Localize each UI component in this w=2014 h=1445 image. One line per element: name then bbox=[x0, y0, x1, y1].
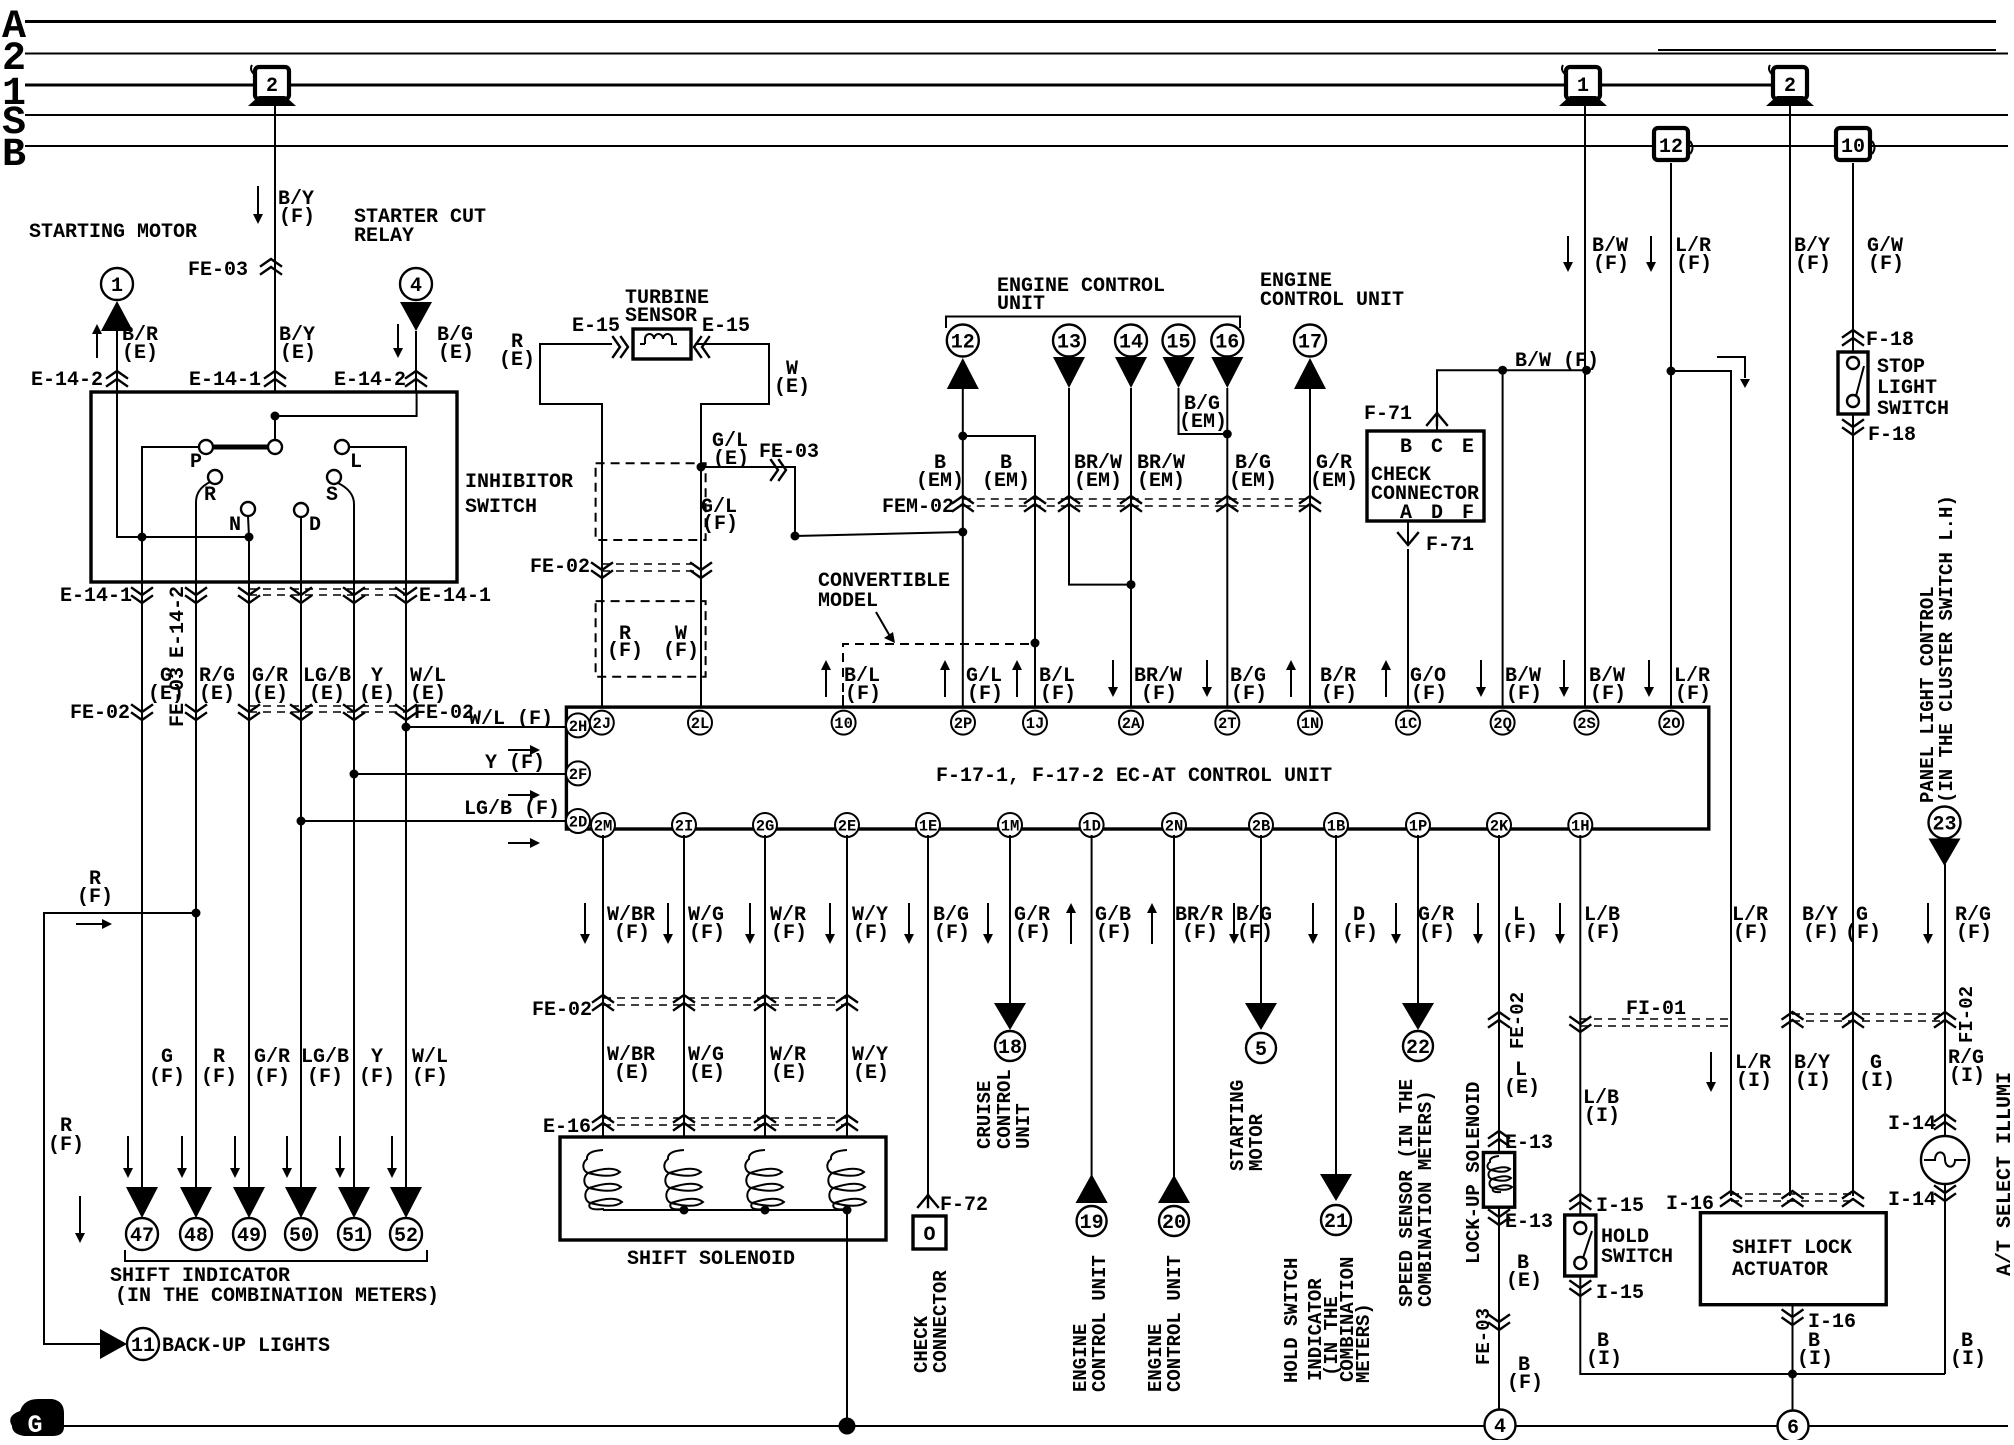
svg-text:2: 2 bbox=[1784, 75, 1796, 98]
pin 2P bbox=[951, 711, 975, 735]
wire shift indicator x=249 bbox=[248, 582, 250, 1187]
pin 2T bbox=[1215, 711, 1239, 735]
arrow to convertible box bbox=[876, 612, 891, 638]
terminal R bbox=[208, 470, 222, 484]
svg-text:(F): (F) bbox=[201, 1066, 237, 1089]
svg-text:22: 22 bbox=[1406, 1037, 1430, 1060]
junction dot B(EM) split bbox=[958, 432, 967, 441]
svg-text:(F): (F) bbox=[1411, 683, 1447, 706]
dashed box R/W upper bbox=[596, 463, 706, 540]
wire shift indicator x=406 bbox=[405, 582, 407, 1187]
flow arrow down into shift indicator x=249 bbox=[234, 1136, 236, 1169]
pin 10 bbox=[832, 711, 856, 735]
svg-text:2L: 2L bbox=[691, 715, 710, 733]
chevron FE-03 bbox=[1489, 1315, 1509, 1330]
inhibitor switch box bbox=[91, 392, 457, 582]
dashed link E-16 row bbox=[603, 1117, 847, 1119]
svg-text:(F): (F) bbox=[702, 513, 738, 536]
terminal D bbox=[294, 503, 308, 517]
wire hold switch to ground junction bbox=[1580, 1276, 1945, 1374]
svg-text:(E): (E) bbox=[1506, 1270, 1542, 1293]
junction dot on B(EM) wire bbox=[958, 528, 967, 537]
triangle at circle 12 bbox=[947, 358, 979, 389]
svg-text:I-16: I-16 bbox=[1808, 1311, 1856, 1334]
svg-text:F-71: F-71 bbox=[1426, 534, 1474, 557]
svg-text:(I): (I) bbox=[1797, 1348, 1833, 1371]
triangle down from circle 4 bbox=[400, 302, 432, 331]
svg-text:F: F bbox=[1462, 502, 1474, 525]
chevron E-15 right bbox=[694, 337, 709, 357]
svg-text:2K: 2K bbox=[1490, 818, 1509, 836]
dashed link FEM-02 row bbox=[963, 498, 1310, 500]
svg-text:2I: 2I bbox=[675, 818, 694, 836]
svg-text:(F): (F) bbox=[1795, 253, 1831, 276]
chevron E-15 left bbox=[613, 337, 628, 357]
svg-text:(I): (I) bbox=[1795, 1070, 1831, 1093]
triangle down into circle 21 bbox=[1320, 1174, 1352, 1201]
stop light switch box bbox=[1838, 352, 1868, 414]
chevron E-16 wire x=684 bbox=[674, 1115, 694, 1130]
circle 48 shift indicator bbox=[180, 1218, 212, 1250]
svg-text:LG/B (F): LG/B (F) bbox=[464, 798, 560, 821]
svg-text:(F): (F) bbox=[1956, 922, 1992, 945]
chevron FEM-02 wire x=962.8 bbox=[953, 496, 973, 511]
wire R (F) horizontal bbox=[44, 913, 196, 1344]
flow arrow right 2 bbox=[508, 794, 531, 796]
svg-text:(I): (I) bbox=[1586, 1348, 1622, 1371]
connector marker E-14-2 chevron on starting motor wire bbox=[107, 371, 127, 386]
svg-text:18: 18 bbox=[998, 1037, 1022, 1060]
flow arrow down R/G bbox=[1927, 903, 1929, 935]
wire from pin 2M to shift solenoid bbox=[602, 835, 604, 1152]
svg-text:(F): (F) bbox=[689, 922, 725, 945]
svg-text:(E): (E) bbox=[853, 1062, 889, 1085]
flow arrow right 3 bbox=[508, 842, 531, 844]
pin 2N bbox=[1162, 813, 1186, 837]
chevron E-16 wire x=603 bbox=[593, 1115, 613, 1130]
svg-text:(F): (F) bbox=[607, 640, 643, 663]
svg-text:SWITCH: SWITCH bbox=[1601, 1246, 1673, 1269]
svg-text:(I): (I) bbox=[1949, 1065, 1985, 1088]
svg-text:19: 19 bbox=[1080, 1212, 1104, 1235]
svg-text:HOLD SWITCH: HOLD SWITCH bbox=[1281, 1258, 1303, 1383]
flow arrow down at x=1396 bbox=[1395, 903, 1397, 935]
svg-text:1N: 1N bbox=[1301, 715, 1320, 733]
junction dot solenoid bus x=765 bbox=[761, 1206, 770, 1215]
svg-text:B: B bbox=[2, 133, 26, 178]
junction dot G/L(E) bbox=[697, 463, 706, 472]
wire B/G(E) from relay to inhibitor bbox=[415, 331, 417, 416]
flow arrow down at x=668 bbox=[667, 903, 669, 935]
circle 47 shift indicator bbox=[126, 1218, 158, 1250]
pin 2O bbox=[1659, 711, 1683, 735]
chevron I-14 upper bbox=[1935, 1114, 1955, 1129]
dashed link FI-01 bbox=[1580, 1018, 1731, 1020]
svg-text:2F: 2F bbox=[569, 766, 588, 784]
svg-text:FE-02: FE-02 bbox=[532, 999, 592, 1022]
svg-text:(E): (E) bbox=[280, 342, 316, 365]
svg-text:LIGHT: LIGHT bbox=[1877, 377, 1937, 400]
svg-text:(F): (F) bbox=[1733, 922, 1769, 945]
triangle down into circle 18 bbox=[994, 1003, 1026, 1030]
wire N terminal to junction bbox=[248, 516, 249, 537]
svg-text:(F): (F) bbox=[1868, 253, 1904, 276]
svg-text:SHIFT SOLENOID: SHIFT SOLENOID bbox=[627, 1248, 795, 1271]
circle 51 shift indicator bbox=[338, 1218, 370, 1250]
wire B/W horizontal bbox=[1437, 370, 1587, 431]
wire W/L (F) to pin 2H bbox=[406, 726, 568, 728]
wire node to common terminal bbox=[274, 416, 276, 440]
svg-text:(I): (I) bbox=[1584, 1105, 1620, 1128]
circle 15 engine control unit bbox=[1163, 325, 1195, 357]
svg-text:(E): (E) bbox=[689, 1062, 725, 1085]
chevron I-14 lower bbox=[1935, 1186, 1955, 1201]
wire F-71 to pin 1C bbox=[1407, 549, 1409, 711]
pin 2G bbox=[753, 813, 777, 837]
svg-text:F-18: F-18 bbox=[1868, 424, 1916, 447]
connector marker E-14-2 chevron on relay wire bbox=[406, 371, 426, 386]
chevron FI-01 on 1H wire bbox=[1570, 1017, 1590, 1032]
svg-text:(EM): (EM) bbox=[982, 470, 1030, 493]
svg-text:FE-03: FE-03 bbox=[1473, 1308, 1495, 1365]
chevron FE-02 on 2K wire bbox=[1489, 1012, 1509, 1027]
svg-text:2D: 2D bbox=[569, 814, 588, 832]
svg-text:SWITCH: SWITCH bbox=[1877, 398, 1949, 421]
junction dot B/W to 2S bbox=[1582, 366, 1591, 375]
svg-text:2N: 2N bbox=[1165, 818, 1184, 836]
flow arrow up at x=1071 bbox=[1070, 912, 1072, 944]
solenoid coil 2 bbox=[664, 1150, 703, 1209]
chevron E-14 row wire x=301 bbox=[291, 588, 311, 603]
chevron E-14 row wire x=196 bbox=[186, 588, 206, 603]
pin 1H bbox=[1568, 813, 1592, 837]
svg-text:A/T SELECT ILLUMI: A/T SELECT ILLUMI bbox=[1994, 1072, 2014, 1276]
svg-text:(IN THE CLUSTER SWITCH L.H): (IN THE CLUSTER SWITCH L.H) bbox=[1936, 495, 1958, 803]
svg-text:(F): (F) bbox=[48, 1134, 84, 1157]
svg-text:10: 10 bbox=[1841, 136, 1865, 159]
flow arrow down at x=830 bbox=[829, 903, 831, 935]
wire B/W to pin 2Q bbox=[1502, 370, 1504, 711]
svg-text:4: 4 bbox=[410, 275, 422, 298]
solenoid ground wire bbox=[846, 1210, 848, 1426]
svg-text:FI-01: FI-01 bbox=[1626, 998, 1686, 1021]
ground symbol G bbox=[10, 1399, 64, 1436]
junction dot N bbox=[245, 533, 254, 542]
chevron FE-02 row wire x=196 bbox=[186, 705, 206, 720]
svg-text:(E): (E) bbox=[359, 683, 395, 706]
svg-text:SHIFT LOCK: SHIFT LOCK bbox=[1732, 1237, 1852, 1260]
flow arrow up at x=1017 bbox=[1016, 669, 1018, 697]
svg-text:B: B bbox=[1400, 436, 1412, 459]
pin 2L bbox=[688, 711, 712, 735]
wire Y exit from S terminal bbox=[338, 483, 354, 582]
svg-text:S: S bbox=[326, 484, 338, 507]
wire shift indicator x=142 bbox=[141, 582, 143, 1187]
svg-text:INHIBITOR: INHIBITOR bbox=[465, 471, 573, 494]
flow arrow down at x=1234 bbox=[1233, 903, 1235, 935]
connector marker FE-03 chevron bbox=[261, 259, 281, 274]
svg-text:2P: 2P bbox=[954, 715, 973, 733]
circle 11 back-up lights bbox=[127, 1328, 159, 1360]
svg-text:14: 14 bbox=[1119, 332, 1143, 355]
svg-text:47: 47 bbox=[130, 1225, 154, 1248]
triangle down into circle 5 bbox=[1245, 1003, 1277, 1030]
flow arrow down into shift indicator x=196 bbox=[181, 1136, 183, 1169]
flow arrow down at x=585 bbox=[584, 903, 586, 935]
circle 20 engine control unit bbox=[1159, 1206, 1189, 1236]
common terminal bbox=[268, 440, 282, 454]
svg-text:(EM): (EM) bbox=[1310, 470, 1358, 493]
chevron I-15 upper bbox=[1570, 1194, 1590, 1209]
svg-text:12: 12 bbox=[1659, 136, 1683, 159]
svg-text:D: D bbox=[1431, 502, 1443, 525]
flow arrow down at x=1207 bbox=[1206, 660, 1208, 688]
check connector O box bbox=[913, 1216, 946, 1249]
svg-text:A: A bbox=[1400, 502, 1412, 525]
svg-text:UNIT: UNIT bbox=[997, 293, 1045, 316]
svg-text:13: 13 bbox=[1057, 332, 1081, 355]
chevron I-16 row x=1853 bbox=[1843, 1191, 1863, 1206]
triangle into terminal 51 bbox=[338, 1187, 370, 1218]
circle 18 cruise control bbox=[995, 1031, 1025, 1061]
svg-text:(F): (F) bbox=[1231, 683, 1267, 706]
chevron FI-02 wire B/Y bbox=[1783, 1012, 1803, 1027]
chevron I-15 lower bbox=[1570, 1281, 1590, 1296]
pin 2K bbox=[1487, 813, 1511, 837]
svg-text:SWITCH: SWITCH bbox=[465, 496, 537, 519]
triangle up into circle 19 bbox=[1076, 1174, 1108, 1203]
junction dot solenoid bus x=684 bbox=[680, 1206, 689, 1215]
svg-text:(E): (E) bbox=[122, 342, 158, 365]
svg-text:P: P bbox=[190, 451, 202, 474]
svg-text:STARTING MOTOR: STARTING MOTOR bbox=[29, 221, 197, 244]
flow arrow down R(F) bbox=[79, 1196, 81, 1234]
dashed link FE-02 bbox=[602, 563, 701, 565]
svg-text:(EM): (EM) bbox=[916, 470, 964, 493]
svg-text:(F): (F) bbox=[149, 1066, 185, 1089]
svg-text:1: 1 bbox=[1577, 75, 1589, 98]
pin 1P bbox=[1406, 813, 1430, 837]
svg-text:(F): (F) bbox=[1593, 253, 1629, 276]
pin 2A bbox=[1119, 711, 1143, 735]
solenoid coil 3 bbox=[745, 1150, 784, 1209]
pin 1E bbox=[916, 813, 940, 837]
svg-text:E-14-1: E-14-1 bbox=[60, 585, 132, 608]
dashed link I-16 row bbox=[1731, 1193, 1853, 1195]
svg-text:COMBINATION METERS): COMBINATION METERS) bbox=[1415, 1090, 1437, 1307]
wire from pin 2I to shift solenoid bbox=[683, 835, 685, 1152]
wire from pin 2K to lock-up solenoid bbox=[1498, 835, 1500, 1411]
svg-text:FI-02: FI-02 bbox=[1956, 986, 1978, 1043]
svg-text:2O: 2O bbox=[1662, 715, 1681, 733]
svg-text:(EM): (EM) bbox=[1229, 470, 1277, 493]
wire P to left riser bbox=[142, 447, 199, 537]
circle 4 starter cut relay bbox=[400, 268, 432, 300]
triangle at circle 15 bbox=[1163, 357, 1195, 388]
chevron FE-02 row wire x=406 bbox=[396, 705, 416, 720]
circle 5 starting motor bbox=[1246, 1033, 1276, 1063]
bus line S bbox=[25, 114, 2008, 116]
triangle into terminal 49 bbox=[233, 1187, 265, 1218]
svg-text:E-14-2: E-14-2 bbox=[31, 369, 103, 392]
svg-text:G: G bbox=[27, 1411, 42, 1440]
chevron I-16 row x=1792.5 bbox=[1783, 1191, 1803, 1206]
triangle into terminal 48 bbox=[180, 1187, 212, 1218]
dashed link FI-02 bbox=[1792, 1013, 1945, 1015]
pin 2H bbox=[566, 713, 590, 737]
wire A to F-71 down bbox=[1407, 521, 1409, 545]
flow arrow right R(F) bbox=[76, 923, 103, 925]
svg-text:I-14: I-14 bbox=[1888, 1113, 1936, 1136]
pin 2S bbox=[1575, 711, 1599, 735]
pin 2J bbox=[590, 711, 614, 735]
wire B/Y from tag 2 to inhibitor switch bbox=[274, 100, 276, 416]
wire LG/B (F) to pin 2D bbox=[301, 820, 568, 822]
svg-text:2M: 2M bbox=[594, 818, 613, 836]
hold switch box bbox=[1565, 1215, 1596, 1276]
svg-text:F-17-1, F-17-2 EC-AT CONTROL U: F-17-1, F-17-2 EC-AT CONTROL UNIT bbox=[936, 765, 1332, 788]
chevron FE-02 solenoid wire x=765 bbox=[755, 995, 775, 1010]
dashed convertible model outline bbox=[843, 644, 1036, 707]
terminal S bbox=[327, 470, 341, 484]
svg-text:(E): (E) bbox=[252, 683, 288, 706]
svg-text:(E): (E) bbox=[148, 683, 184, 706]
svg-text:(F): (F) bbox=[1676, 253, 1712, 276]
svg-text:(F): (F) bbox=[1040, 683, 1076, 706]
svg-text:R: R bbox=[204, 484, 216, 507]
svg-text:E-13: E-13 bbox=[1505, 1211, 1553, 1234]
dashed link FE-02 row bbox=[249, 705, 406, 707]
svg-text:1C: 1C bbox=[1399, 715, 1418, 733]
wire G exit from P junction bbox=[141, 537, 143, 582]
svg-text:E-15: E-15 bbox=[572, 315, 620, 338]
svg-text:48: 48 bbox=[184, 1225, 208, 1248]
wire bulb to ground junction bbox=[1944, 1198, 1946, 1374]
triangle at circle 17 bbox=[1294, 358, 1326, 389]
svg-text:BACK-UP LIGHTS: BACK-UP LIGHTS bbox=[162, 1335, 330, 1358]
pin 2F bbox=[566, 761, 590, 785]
wire B/R(E) from inhibitor to starting motor bbox=[116, 331, 118, 392]
chevron FE-02 row wire x=301 bbox=[291, 705, 311, 720]
svg-text:5: 5 bbox=[1255, 1039, 1267, 1062]
wire circle 15 elbow bbox=[1179, 388, 1228, 434]
bracket over circles 12-16 bbox=[946, 317, 1240, 329]
svg-text:CONTROL UNIT: CONTROL UNIT bbox=[1164, 1255, 1186, 1392]
svg-text:F-18: F-18 bbox=[1866, 329, 1914, 352]
wire from pin 2B to starting motor 5 bbox=[1260, 835, 1262, 1003]
circle 22 speed sensor bbox=[1403, 1031, 1433, 1061]
wire G/L(E) to FE-03 bbox=[701, 467, 795, 536]
flow arrow down at x=1313 bbox=[1312, 903, 1314, 935]
svg-text:10: 10 bbox=[834, 715, 853, 733]
chevron FE-03 bbox=[771, 460, 786, 480]
svg-text:(F): (F) bbox=[359, 1066, 395, 1089]
svg-text:(F): (F) bbox=[1321, 683, 1357, 706]
svg-text:(F): (F) bbox=[1506, 683, 1542, 706]
svg-text:Y (F): Y (F) bbox=[485, 752, 545, 775]
svg-text:RELAY: RELAY bbox=[354, 225, 414, 248]
svg-text:SENSOR: SENSOR bbox=[625, 305, 697, 328]
svg-text:MOTOR: MOTOR bbox=[1246, 1113, 1268, 1171]
wire stop light switch down bbox=[1852, 414, 1854, 1196]
svg-text:FE-02: FE-02 bbox=[70, 702, 130, 725]
svg-text:CONTROL UNIT: CONTROL UNIT bbox=[1260, 289, 1404, 312]
flow arrow up at x=1291 bbox=[1290, 669, 1292, 697]
svg-text:(F): (F) bbox=[77, 886, 113, 909]
A/T select illumination bulb bbox=[1921, 1136, 1969, 1184]
svg-text:16: 16 bbox=[1215, 332, 1239, 355]
wire circle 14 to pin 2A bbox=[1130, 388, 1132, 711]
wire B(EM) branch to pin 1J bbox=[963, 436, 1035, 711]
chevron FE-02 row wire x=354 bbox=[344, 705, 364, 720]
svg-text:(IN THE COMBINATION METERS): (IN THE COMBINATION METERS) bbox=[115, 1285, 439, 1308]
svg-text:2B: 2B bbox=[1252, 818, 1271, 836]
solenoid common bus bbox=[603, 1209, 847, 1211]
svg-text:(F): (F) bbox=[845, 683, 881, 706]
wire circle 13 down bbox=[1069, 388, 1131, 585]
bus line A bbox=[25, 20, 1996, 23]
flow arrow down B/Y (F) bbox=[257, 186, 259, 215]
junction dot ground bus bbox=[839, 1418, 856, 1435]
svg-text:STOP: STOP bbox=[1877, 356, 1925, 379]
svg-text:D: D bbox=[309, 514, 321, 537]
svg-text:(F): (F) bbox=[412, 1066, 448, 1089]
flow arrow down at x=1649 bbox=[1648, 660, 1650, 688]
chevron FEM-02 wire x=1069 bbox=[1059, 496, 1079, 511]
svg-text:15: 15 bbox=[1166, 332, 1190, 355]
svg-text:FE-02: FE-02 bbox=[530, 556, 590, 579]
circle 17 engine control unit bbox=[1294, 325, 1326, 357]
svg-text:N: N bbox=[229, 514, 241, 537]
circle 6 on ground bus bbox=[1778, 1411, 1809, 1442]
chevron E-16 wire x=765 bbox=[755, 1115, 775, 1130]
flow arrow down at x=750 bbox=[749, 903, 751, 935]
pin 2D bbox=[566, 809, 590, 833]
junction dot 15-16 bbox=[1223, 430, 1232, 439]
chevron FE-02 solenoid wire x=847 bbox=[837, 995, 857, 1010]
terminal N bbox=[241, 502, 255, 516]
lock-up solenoid coil bbox=[1487, 1156, 1512, 1192]
dashed link E-14 row bbox=[249, 588, 406, 590]
wire shift indicator x=301 bbox=[300, 582, 302, 1187]
svg-text:(F): (F) bbox=[1590, 683, 1626, 706]
svg-text:(F): (F) bbox=[1342, 922, 1378, 945]
wire R from sensor left bbox=[540, 344, 612, 711]
turbine sensor coil symbol bbox=[640, 334, 677, 344]
svg-text:2H: 2H bbox=[569, 718, 588, 736]
svg-text:ACTUATOR: ACTUATOR bbox=[1732, 1259, 1828, 1282]
svg-text:(F): (F) bbox=[1803, 922, 1839, 945]
svg-text:21: 21 bbox=[1324, 1211, 1348, 1234]
wire from pin 1H to hold switch bbox=[1579, 835, 1581, 1215]
connector tag 2 (right, on bus 1) bbox=[1773, 67, 1807, 99]
svg-text:LOCK-UP SOLENOID: LOCK-UP SOLENOID bbox=[1463, 1082, 1485, 1264]
svg-text:CONNECTOR: CONNECTOR bbox=[930, 1270, 952, 1373]
flow arrow down at x=1564 bbox=[1563, 660, 1565, 688]
connector tag 12 (on bus B) bbox=[1654, 128, 1688, 160]
svg-text:4: 4 bbox=[1494, 1416, 1506, 1439]
chevron F-71 up bbox=[1427, 413, 1447, 425]
svg-text:(I): (I) bbox=[1950, 1348, 1986, 1371]
svg-text:(F): (F) bbox=[1845, 922, 1881, 945]
junction Y branch bbox=[350, 770, 359, 779]
svg-text:1E: 1E bbox=[919, 818, 938, 836]
bus line B bbox=[25, 145, 2008, 147]
svg-text:W/L (F): W/L (F) bbox=[469, 708, 553, 731]
circle 16 engine control unit bbox=[1211, 325, 1243, 357]
junction dot 1J top corner bbox=[1031, 639, 1040, 648]
junction LG/B branch bbox=[297, 817, 306, 826]
